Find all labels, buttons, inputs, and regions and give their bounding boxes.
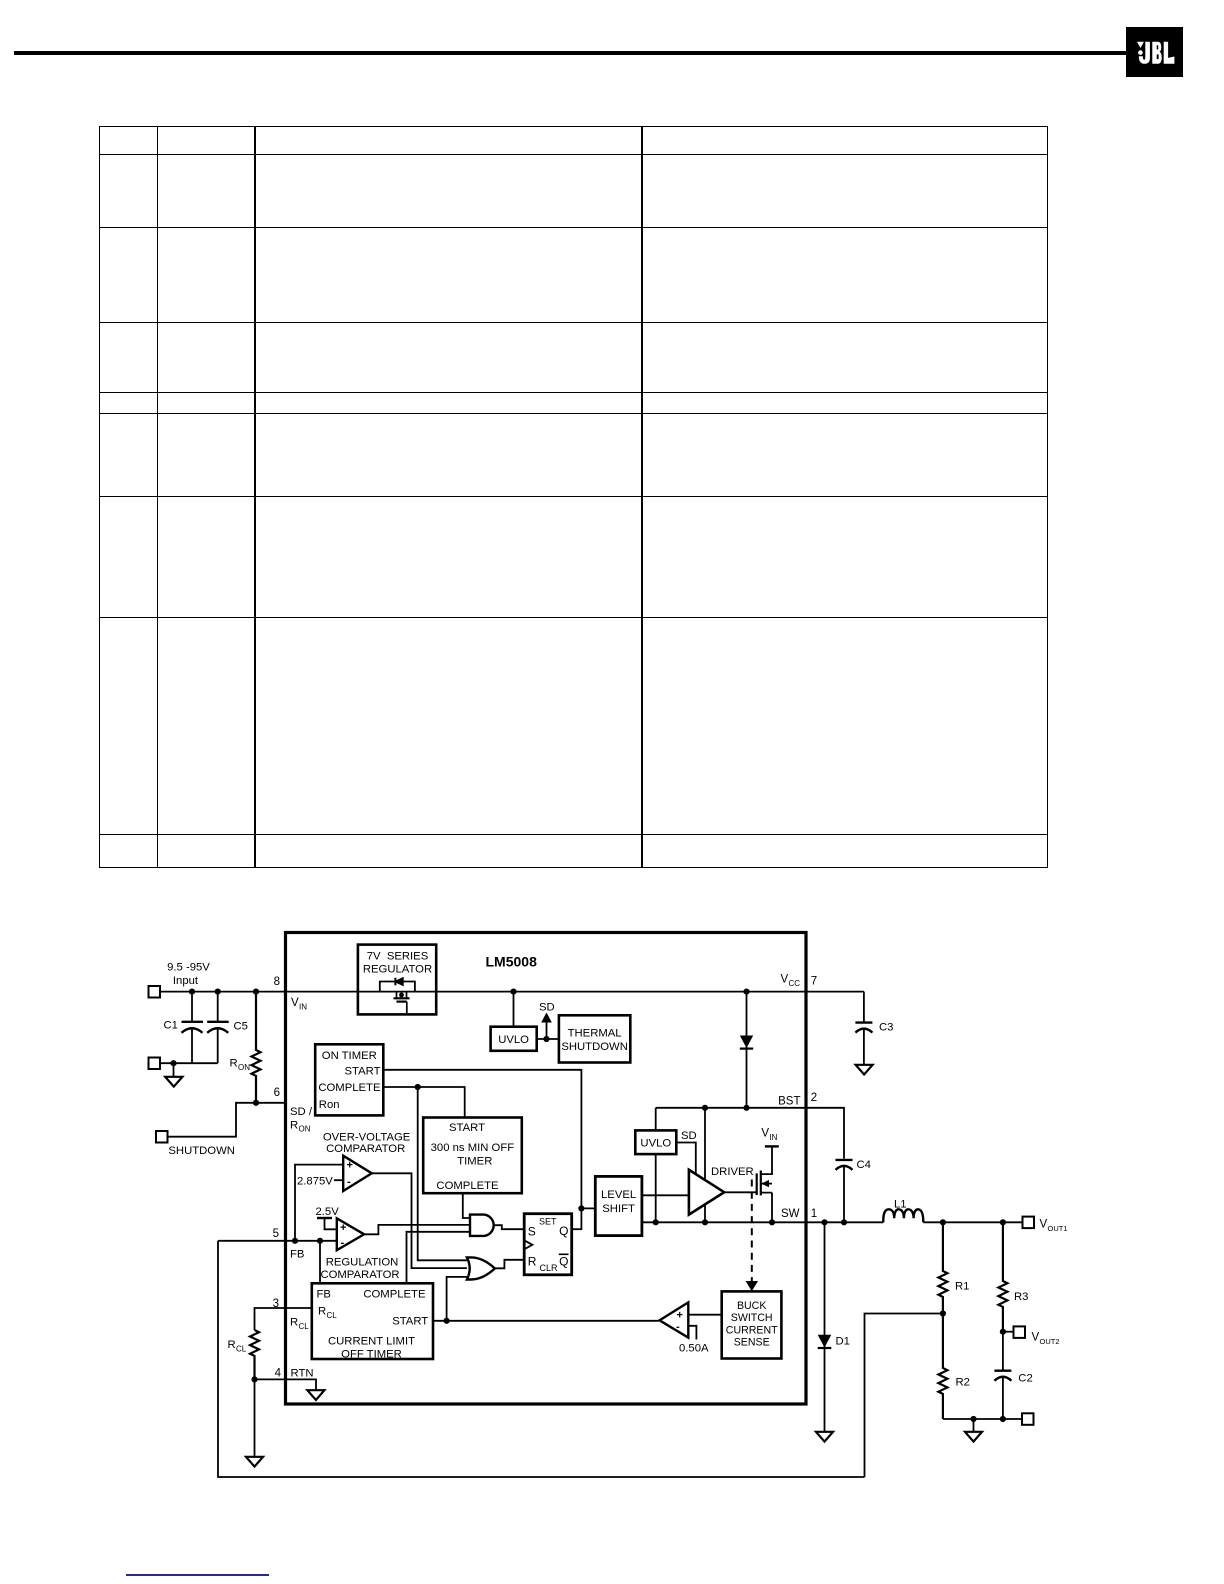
label OVER-VOLTAGE COMPARATOR <box>323 1131 411 1154</box>
svg-text:OFF TIMER: OFF TIMER <box>341 1348 402 1360</box>
wire dashed current sense <box>746 1180 758 1292</box>
wire FB feedback loop <box>218 1241 865 1477</box>
label C5 <box>234 1021 248 1033</box>
block THERMAL SHUTDOWN <box>559 1015 630 1062</box>
svg-text:CLR: CLR <box>540 1263 559 1273</box>
label SD arrow up <box>539 1002 555 1040</box>
comparator regulation <box>337 1218 364 1250</box>
wire level shift output to driver <box>642 1194 689 1196</box>
svg-text:CL: CL <box>327 1311 338 1320</box>
pin 8 <box>274 976 280 988</box>
block 300ns MIN OFF TIMER <box>423 1118 522 1194</box>
wire pin3 RCL <box>255 1308 312 1330</box>
label VIN (buck switch drain) <box>761 1128 777 1142</box>
svg-text:SHUTDOWN: SHUTDOWN <box>561 1041 628 1053</box>
pin 3 <box>273 1298 279 1310</box>
label C1 <box>164 1020 178 1032</box>
svg-text:LEVEL: LEVEL <box>601 1189 636 1201</box>
svg-text:C3: C3 <box>879 1022 893 1034</box>
label R2 <box>956 1376 970 1388</box>
svg-text:SD: SD <box>539 1002 555 1014</box>
svg-text:UVLO: UVLO <box>498 1034 529 1046</box>
svg-text:CL: CL <box>236 1344 247 1353</box>
svg-text:-: - <box>676 1321 680 1333</box>
label 0.50A <box>679 1343 709 1355</box>
svg-text:S: S <box>528 1225 536 1239</box>
wire OVP output to OR gate <box>372 1173 467 1268</box>
ground C3 <box>856 1065 873 1075</box>
svg-text:7: 7 <box>811 976 817 988</box>
terminal VOUT1 <box>1023 1217 1035 1229</box>
pin label VIN <box>291 997 307 1011</box>
label SHUTDOWN <box>168 1145 235 1157</box>
capacitor C3 <box>855 992 872 1064</box>
wire VIN rail inside regulator <box>358 991 436 993</box>
pin label SD/RON <box>290 1106 313 1134</box>
svg-text:OUT1: OUT1 <box>1048 1224 1068 1233</box>
wire OR output to latch R <box>494 1260 524 1269</box>
label DRIVER <box>711 1166 754 1178</box>
node VOUT2 tap <box>1000 1329 1014 1335</box>
svg-text:START: START <box>345 1066 381 1078</box>
wire UVLO SD to driver <box>676 1143 696 1175</box>
svg-text:SENSE: SENSE <box>734 1337 770 1349</box>
svg-text:ON TIMER: ON TIMER <box>322 1050 377 1062</box>
svg-text:+: + <box>340 1222 346 1234</box>
svg-text:IN: IN <box>769 1133 777 1142</box>
svg-text:R: R <box>290 1317 298 1329</box>
label R3 <box>1014 1291 1028 1303</box>
svg-text:4: 4 <box>275 1368 282 1380</box>
wire regulation comparator output to AND <box>364 1225 470 1234</box>
node feedback tap <box>940 1310 946 1316</box>
svg-text:2.875V: 2.875V <box>297 1175 333 1187</box>
latch SR <box>524 1214 572 1275</box>
resistor RON <box>252 992 261 1103</box>
svg-text:SET: SET <box>539 1217 557 1227</box>
label VOUT1 <box>1040 1219 1068 1233</box>
wire BST rail (pin 2) <box>656 1105 844 1159</box>
terminal input+ <box>149 986 161 998</box>
svg-text:BUCK: BUCK <box>737 1300 766 1312</box>
wire input return <box>160 1060 218 1076</box>
svg-text:CURRENT: CURRENT <box>726 1324 778 1336</box>
label L1 <box>894 1199 907 1211</box>
svg-text:L1: L1 <box>894 1199 907 1211</box>
transistor pass FET in regulator <box>394 992 410 1015</box>
svg-text:SWITCH: SWITCH <box>731 1312 773 1324</box>
wire CL START output <box>433 1277 659 1324</box>
label R1 <box>955 1281 969 1293</box>
svg-text:REGULATOR: REGULATOR <box>363 964 432 976</box>
svg-text:COMPLETE: COMPLETE <box>318 1082 381 1094</box>
label LM5008 <box>486 954 538 970</box>
svg-text:CURRENT LIMIT: CURRENT LIMIT <box>328 1336 415 1348</box>
wire RCL to ground <box>254 1379 256 1456</box>
pin label VCC <box>781 974 801 988</box>
wire UVLO to thermal shutdown <box>537 1036 559 1042</box>
resistor R1 <box>938 1222 947 1313</box>
svg-text:ON: ON <box>299 1125 311 1134</box>
svg-text:IN: IN <box>299 1002 307 1011</box>
svg-text:C5: C5 <box>234 1021 248 1033</box>
wire VCC to UVLO <box>513 992 515 1027</box>
svg-text:FB: FB <box>317 1288 331 1300</box>
svg-text:V: V <box>1032 1332 1040 1344</box>
wire pin6 SD/RON <box>168 1100 286 1137</box>
svg-text:OVER-VOLTAGE: OVER-VOLTAGE <box>323 1131 411 1143</box>
pin 4 <box>275 1368 282 1380</box>
svg-text:Ron: Ron <box>319 1099 340 1111</box>
ground output <box>965 1432 982 1442</box>
svg-text:2: 2 <box>811 1092 817 1104</box>
svg-text:REGULATION: REGULATION <box>326 1257 399 1269</box>
source 2.5V reference <box>317 1218 337 1229</box>
gate AND <box>470 1215 494 1236</box>
svg-text:OUT2: OUT2 <box>1040 1337 1060 1346</box>
svg-text:C4: C4 <box>857 1159 871 1171</box>
svg-text:CL: CL <box>299 1322 310 1331</box>
svg-text:SHUTDOWN: SHUTDOWN <box>168 1145 235 1157</box>
comparator over-voltage <box>343 1156 372 1191</box>
svg-text:COMPLETE: COMPLETE <box>363 1288 426 1300</box>
wire feedback tap to divider <box>865 1314 943 1478</box>
footer blue rule <box>126 1574 269 1576</box>
svg-text:START: START <box>392 1315 428 1327</box>
wire OVP + input to FB <box>295 1165 343 1241</box>
pin 1 <box>811 1208 817 1220</box>
resistor RCL <box>250 1330 259 1379</box>
wire on-timer COMPLETE to OR gate <box>418 1087 467 1260</box>
label RCL <box>228 1339 247 1353</box>
svg-text:Q: Q <box>559 1224 568 1238</box>
svg-text:0.50A: 0.50A <box>679 1343 709 1355</box>
wire on-timer COMPLETE <box>383 1084 464 1118</box>
svg-text:Q: Q <box>559 1255 568 1269</box>
svg-text:SHIFT: SHIFT <box>602 1203 635 1215</box>
ground D1 <box>816 1432 833 1442</box>
amp DRIVER <box>689 1170 724 1215</box>
label 7V SERIES REGULATOR <box>363 950 432 975</box>
JBL logo <box>1126 27 1183 77</box>
svg-text:V: V <box>781 974 789 986</box>
pin label RTN <box>291 1368 314 1380</box>
terminal output return <box>1022 1413 1034 1425</box>
wire CL COMPLETE to AND gate <box>407 1232 471 1284</box>
svg-text:C1: C1 <box>164 1020 178 1032</box>
pin label FB <box>290 1249 304 1261</box>
comparator current limit 0.50A <box>660 1302 689 1337</box>
ground RTN internal <box>307 1390 324 1400</box>
terminal SHUTDOWN <box>156 1131 168 1143</box>
block LEVEL SHIFT <box>595 1176 642 1235</box>
pin label SW <box>781 1208 800 1220</box>
regulator 7V series box <box>358 945 436 1015</box>
svg-text:C2: C2 <box>1018 1373 1032 1385</box>
pin 5 <box>273 1228 279 1240</box>
svg-text:CC: CC <box>789 979 801 988</box>
svg-text:DRIVER: DRIVER <box>711 1166 754 1178</box>
wire comparator output to CL START <box>659 1320 660 1322</box>
svg-text:V: V <box>291 997 299 1009</box>
label D1 <box>836 1336 850 1348</box>
label C4 <box>857 1159 871 1171</box>
pin 2 <box>811 1092 817 1104</box>
svg-text:V: V <box>761 1128 769 1140</box>
wire FB to current limit timer <box>319 1241 321 1284</box>
svg-text:R: R <box>290 1120 298 1132</box>
svg-text:1: 1 <box>811 1208 817 1220</box>
terminal VOUT2 <box>1014 1326 1026 1338</box>
label RON <box>230 1058 251 1072</box>
wire UVLO to SW <box>655 1154 657 1222</box>
svg-text:V: V <box>1040 1219 1048 1231</box>
svg-text:ON: ON <box>238 1063 250 1072</box>
svg-text:TIMER: TIMER <box>457 1156 492 1168</box>
gate OR <box>467 1257 495 1279</box>
svg-text:R: R <box>318 1306 326 1318</box>
svg-text:300 ns MIN OFF: 300 ns MIN OFF <box>431 1142 515 1154</box>
svg-text:R2: R2 <box>956 1376 970 1388</box>
block CURRENT LIMIT OFF TIMER <box>312 1283 433 1360</box>
label VOUT2 <box>1032 1332 1060 1346</box>
wire AND output to latch S <box>495 1225 525 1229</box>
svg-text:6: 6 <box>274 1087 280 1099</box>
diode internal bypass in regulator <box>380 978 415 992</box>
svg-text:COMPARATOR: COMPARATOR <box>320 1269 399 1281</box>
svg-text:5: 5 <box>273 1228 279 1240</box>
pin label RCL <box>290 1317 309 1331</box>
svg-text:SD /: SD / <box>290 1106 313 1118</box>
block UVLO (thermal) <box>491 1027 537 1051</box>
svg-text:R3: R3 <box>1014 1291 1028 1303</box>
label C2 <box>1018 1373 1032 1385</box>
wire VIN rail (pin 8 to pin 7 / VCC) <box>160 991 864 993</box>
wire FB (pin 5) <box>218 1238 337 1244</box>
svg-text:+: + <box>677 1310 683 1322</box>
capacitor C4 <box>836 1160 853 1222</box>
wire min-off COMPLETE to AND gate <box>463 1193 470 1218</box>
inductor L1 <box>883 1209 923 1222</box>
svg-text:-: - <box>341 1237 345 1249</box>
resistor R3 <box>998 1222 1007 1331</box>
svg-text:RTN: RTN <box>291 1368 314 1380</box>
svg-text:9.5 -95V: 9.5 -95V <box>167 962 210 974</box>
empty parts table <box>0 0 1224 1</box>
ground input <box>165 1077 182 1087</box>
block ON TIMER <box>315 1044 383 1115</box>
svg-text:R: R <box>228 1339 236 1351</box>
block UVLO (bootstrap) <box>635 1108 676 1154</box>
pin 7 <box>811 976 817 988</box>
svg-text:2.5V: 2.5V <box>316 1206 340 1218</box>
ground RCL <box>246 1457 263 1467</box>
svg-text:UVLO: UVLO <box>640 1138 671 1150</box>
source 0.50A reference <box>688 1326 696 1340</box>
wire SW rail (pin 1) <box>642 1219 1023 1225</box>
svg-text:START: START <box>449 1122 485 1134</box>
svg-text:SD: SD <box>681 1130 697 1142</box>
svg-text:-: - <box>347 1176 351 1188</box>
pin label BST <box>778 1095 800 1107</box>
svg-text:COMPARATOR: COMPARATOR <box>326 1143 405 1155</box>
label 2.875V <box>297 1175 343 1187</box>
svg-text:D1: D1 <box>836 1336 850 1348</box>
wire on-timer START to latch area <box>383 1070 581 1209</box>
svg-text:THERMAL: THERMAL <box>568 1028 622 1040</box>
label C3 <box>879 1022 893 1034</box>
header rule <box>14 51 1126 55</box>
wire latch Q to level shift <box>572 1205 596 1229</box>
label SD (driver) <box>681 1130 697 1142</box>
svg-text:R: R <box>528 1255 537 1269</box>
svg-text:8: 8 <box>274 976 280 988</box>
capacitor C5 <box>207 992 229 1064</box>
transistor buck switch Q1 <box>724 1146 779 1222</box>
svg-text:+: + <box>347 1160 353 1172</box>
svg-text:7V SERIES: 7V SERIES <box>367 950 429 962</box>
block BUCK SWITCH CURRENT SENSE <box>722 1291 782 1358</box>
IC LM5008 outline <box>286 933 807 1405</box>
wire pin4 RTN <box>251 1376 316 1389</box>
capacitor C2 <box>994 1332 1011 1419</box>
diode D1 <box>818 1222 832 1431</box>
wire buck sense to comparator <box>688 1314 721 1316</box>
wire output return <box>943 1416 1022 1431</box>
svg-text:Input: Input <box>173 975 199 987</box>
label REGULATION COMPARATOR <box>320 1257 399 1282</box>
svg-text:SW: SW <box>781 1208 800 1220</box>
svg-text:R: R <box>230 1058 238 1070</box>
wire driver supply BST-SW <box>704 1108 706 1223</box>
svg-text:FB: FB <box>290 1249 304 1261</box>
label 2.5V <box>316 1206 340 1218</box>
svg-text:LM5008: LM5008 <box>486 954 538 970</box>
label 9.5 -95V Input <box>167 962 210 987</box>
svg-text:COMPLETE: COMPLETE <box>436 1180 499 1192</box>
pin 6 <box>274 1087 280 1099</box>
svg-text:R1: R1 <box>955 1281 969 1293</box>
node VIN junction dots <box>189 989 750 995</box>
capacitor C1 <box>182 992 204 1064</box>
resistor R2 <box>938 1314 947 1420</box>
terminal input- <box>149 1058 161 1070</box>
diode VCC-BST internal <box>740 992 753 1111</box>
svg-text:BST: BST <box>778 1095 800 1107</box>
